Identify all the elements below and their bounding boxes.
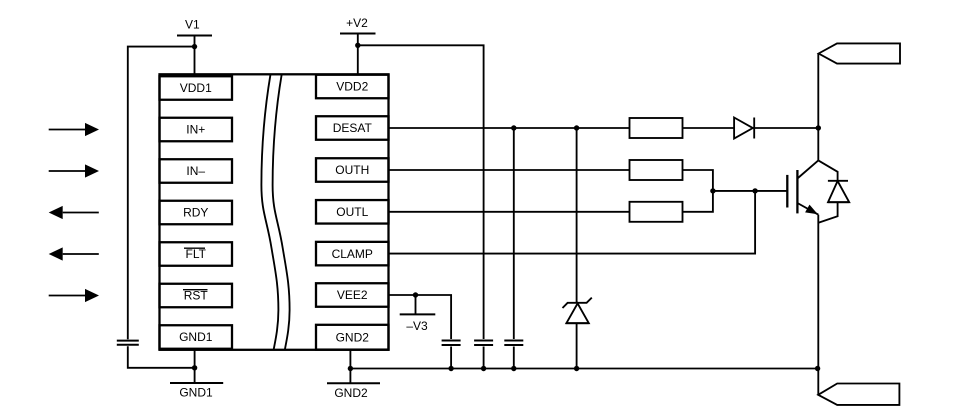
pin IN+ [160,118,233,142]
input arrow RST [49,289,99,302]
wire collector to top tab [817,54,819,161]
pin RDY [160,201,233,225]
svg-text:FLT: FLT [186,247,207,261]
input arrow IN- [49,164,99,177]
junction node DESAT/collector [816,125,821,130]
isolation barrier [261,74,289,350]
junction node C3/rail [481,366,486,371]
wire DESAT net [389,127,630,129]
svg-text:GND1: GND1 [179,386,213,400]
junction node VEE2/-V3 [413,292,418,297]
svg-text:IN+: IN+ [186,123,205,137]
svg-text:VDD2: VDD2 [336,80,368,94]
pin IN- [160,159,233,183]
capacitor C2 (VEE2 bypass) [442,341,461,369]
junction node DESAT/C4 [511,125,516,130]
wire GND2 rail [350,368,817,370]
transistor Q1 (IGBT) [787,160,818,214]
svg-text:RST: RST [184,289,209,303]
svg-text:V1: V1 [185,18,200,32]
resistor R1 (DESAT) [630,118,735,138]
pin FLT (active low) [160,242,233,266]
svg-text:CLAMP: CLAMP [332,247,373,261]
wire OUTL net [389,211,630,213]
capacitor C1 (input bypass) [117,341,139,345]
svg-text:+V2: +V2 [346,16,368,30]
pin CLAMP [316,242,389,266]
wire TVS branch [576,128,578,303]
pin GND1 [160,325,233,349]
wire CLAMP net [389,191,756,254]
svg-text:OUTL: OUTL [336,205,368,219]
junction node GND2 [348,366,353,371]
svg-text:GND2: GND2 [334,386,368,400]
wire OUTH net [389,169,630,171]
supply V1 [177,18,212,77]
wire VEE2 to C2 [389,295,452,339]
pin DESAT [316,116,389,140]
svg-text:VEE2: VEE2 [337,288,368,302]
wire +V2 to C3 [358,45,484,339]
wire V1 to left bypass rail [128,47,195,340]
supply -V3 [400,295,436,333]
capacitor C3 (VDD2 bypass) [474,341,493,369]
svg-text:IN–: IN– [186,164,205,178]
resistor R2 (OUTH gate on) [630,160,713,191]
junction node GND1 [192,365,197,370]
pin GND2 [316,325,389,350]
junction node emitter/rail [815,366,820,371]
wire emitter to rail [817,215,819,395]
svg-text:GND1: GND1 [179,330,213,344]
svg-text:–V3: –V3 [406,319,428,333]
pin RST (active low) [160,284,233,308]
junction node +V2 [355,43,360,48]
capacitor C4 (DESAT blanking) [504,341,523,369]
junction node C4/rail [511,366,516,371]
diode D1 (DESAT sense) [734,118,818,139]
wire gate net [713,190,787,192]
wire C1 to GND1 node [128,346,195,368]
output arrow RDY [49,206,99,219]
svg-text:DESAT: DESAT [333,121,373,135]
zener TVS D2 [563,298,592,369]
junction node V1 [192,44,197,49]
supply +V2 [340,16,376,75]
pin VDD1 [160,76,233,100]
svg-text:OUTH: OUTH [335,163,369,177]
ground GND1 [170,350,223,400]
resistor R3 (OUTL gate off) [630,191,713,222]
input arrow IN+ [49,123,99,136]
terminal tab (collector bus) [819,43,900,63]
junction node gate R2/R3 [710,188,715,193]
IC U1 outline [160,74,389,350]
pin VDD2 [316,75,389,99]
pin VEE2 [316,283,389,307]
diode D3 (freewheel) [818,160,849,222]
pin OUTL [316,200,389,224]
junction node C2/rail [448,366,453,371]
output arrow FLT [49,247,99,260]
svg-text:VDD1: VDD1 [180,81,212,95]
svg-text:GND2: GND2 [336,331,370,345]
junction node TVS/rail [574,366,579,371]
junction node gate/CLAMP [752,188,757,193]
junction node DESAT/TVS [574,125,579,130]
wire C4 branch [513,128,515,339]
pin OUTH [316,158,389,182]
ground GND2 [327,350,380,400]
svg-text:RDY: RDY [183,206,208,220]
terminal tab (emitter bus) [818,384,899,405]
